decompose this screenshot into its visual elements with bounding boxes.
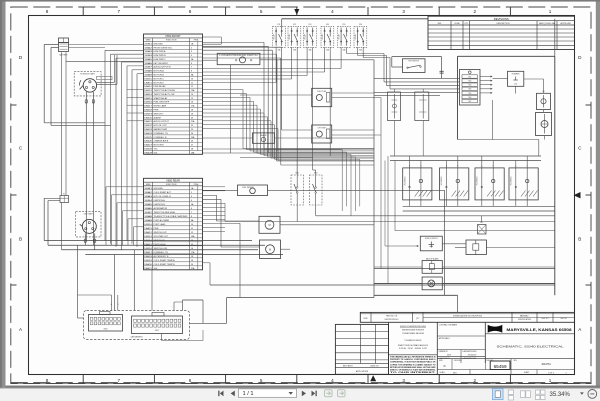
title block scale row <box>437 369 574 371</box>
svg-text:ALARM: ALARM <box>260 134 266 137</box>
toolbar zoom dropdown caret <box>580 392 584 394</box>
ignition switch S2 dashed enclosure <box>76 212 101 237</box>
svg-text:MOTION A: MOTION A <box>154 70 165 73</box>
terminal strip feed bus wires <box>374 77 460 79</box>
solenoid valve V1 <box>403 168 432 200</box>
svg-text:16B1: 16B1 <box>144 188 152 190</box>
svg-text:8: 8 <box>46 378 49 383</box>
svg-text:18A9: 18A9 <box>144 74 152 77</box>
svg-text:MARYSVILLE, KANSAS 66508: MARYSVILLE, KANSAS 66508 <box>507 327 573 332</box>
svg-text:16B16: 16B16 <box>144 102 152 104</box>
svg-text:X12: X12 <box>480 222 483 224</box>
svg-text:ZONE: ZONE <box>454 23 460 25</box>
relay module A2 <box>253 133 275 143</box>
svg-text:COLD START ACT: COLD START ACT <box>154 191 172 194</box>
svg-text:16B19: 16B19 <box>144 260 152 262</box>
riser wires from table X650 REAR to motors <box>203 194 217 196</box>
table X650 FRONT right-side stub wires upper <box>203 41 265 43</box>
svg-text:PIN A: PIN A <box>194 39 199 42</box>
solenoid module L2 <box>536 113 552 136</box>
svg-text:16B1: 16B1 <box>144 43 152 45</box>
wiper motor M2 <box>260 240 281 259</box>
svg-text:11: 11 <box>191 228 193 230</box>
svg-text:6: 6 <box>189 378 192 383</box>
toolbar continuous layout button <box>508 390 513 400</box>
wire from connector going up right <box>182 300 184 311</box>
svg-text:FRACTIONS DECIMALS ANGLES: FRACTIONS DECIMALS ANGLES <box>398 344 429 347</box>
svg-text:B: B <box>578 237 581 242</box>
relay K6 dashed box <box>354 26 367 47</box>
relay K3 dashed box <box>304 26 317 47</box>
svg-text:IGNITION A: IGNITION A <box>154 199 166 202</box>
svg-text:18: 18 <box>191 256 193 258</box>
svg-text:3: 3 <box>191 196 192 198</box>
relay drops routed right to feed bus <box>346 47 348 53</box>
svg-text:18A8: 18A8 <box>144 215 152 218</box>
connector J1 body <box>89 315 123 332</box>
svg-text:19: 19 <box>191 113 193 115</box>
center horizontal bus wires <box>203 148 374 150</box>
svg-text:THROTTLE ACT HIGH: THROTTLE ACT HIGH <box>154 89 176 92</box>
S1 lead connectors <box>85 92 87 108</box>
svg-text:HYD OIL OUT: HYD OIL OUT <box>154 125 168 127</box>
title block left application table <box>335 324 388 374</box>
svg-text:WIRE: WIRE <box>146 40 151 42</box>
relay K2 dashed box <box>288 26 301 47</box>
solenoid valve V2 <box>440 168 469 200</box>
fuel level sender G1 <box>238 185 268 196</box>
svg-text:6: 6 <box>191 208 192 210</box>
svg-text:APPROVED: APPROVED <box>561 22 572 25</box>
relay K1 dashed box <box>273 26 286 47</box>
svg-text:7/16/2007: 7/16/2007 <box>468 355 478 357</box>
fuel pump P1 wires <box>240 94 312 96</box>
flasher wires <box>493 78 508 80</box>
svg-text:TOLERANCES ARE: MACHINED: TOLERANCES ARE: MACHINED <box>402 332 425 335</box>
svg-text:CHECKED BY: CHECKED BY <box>439 358 451 360</box>
svg-text:X651: X651 <box>155 330 159 332</box>
sensor module B <box>415 92 429 121</box>
svg-text:SCHEMATIC, SS/40 ELECTRICAL: SCHEMATIC, SS/40 ELECTRICAL <box>497 344 564 348</box>
svg-text:18: 18 <box>191 110 193 112</box>
svg-text:X650 REAR: X650 REAR <box>166 178 180 182</box>
toolbar prev-page button <box>231 391 235 397</box>
fuel pump module P1 <box>312 88 332 106</box>
svg-text:22: 22 <box>191 125 193 127</box>
fuel sender wires <box>203 189 238 191</box>
cab harness connector assembly dashed enclosure <box>84 311 190 340</box>
ignition switch S1 rotary symbol <box>83 79 96 92</box>
svg-text:16B22: 16B22 <box>144 125 152 127</box>
left riser bundle to table X650 FRONT <box>105 49 144 51</box>
svg-text:F51: F51 <box>277 24 280 26</box>
svg-text:18A18: 18A18 <box>144 109 152 112</box>
svg-text:ALTERNATOR: ALTERNATOR <box>154 207 168 210</box>
svg-text:16: 16 <box>191 102 193 104</box>
svg-text:DOWNHILL 7%: DOWNHILL 7% <box>154 133 169 135</box>
svg-text:CAB HARNESS: CAB HARNESS <box>130 335 143 338</box>
svg-text:16B25: 16B25 <box>144 137 152 139</box>
svg-text:IDENTIFYING NO.: IDENTIFYING NO. <box>385 319 400 321</box>
svg-text:2: 2 <box>191 192 192 194</box>
svg-text:START RELAY: START RELAY <box>154 97 168 100</box>
svg-text:THROTTLE ACT LOW: THROTTLE ACT LOW <box>154 93 175 96</box>
relay module K8 <box>537 93 551 109</box>
svg-text:F56: F56 <box>359 24 362 26</box>
svg-text:MOTION E: MOTION E <box>154 145 165 147</box>
svg-text:MOTION C: MOTION C <box>154 78 165 80</box>
connector J1 pin grid <box>90 317 93 320</box>
connector right lead <box>173 302 175 311</box>
svg-text:SIZE: SIZE <box>439 360 443 362</box>
svg-text:FUEL SHUTOFF: FUEL SHUTOFF <box>154 102 170 104</box>
svg-text:18A11: 18A11 <box>144 81 152 84</box>
svg-text:4: 4 <box>331 9 334 14</box>
svg-text:F54: F54 <box>326 24 329 26</box>
svg-text:THIS DRAWING AND ALL INFORMATI: THIS DRAWING AND ALL INFORMATION THEREON… <box>390 356 436 359</box>
svg-text:18A27: 18A27 <box>144 144 152 147</box>
svg-text:APPROVALS: APPROVALS <box>439 337 451 340</box>
svg-text:8: 8 <box>191 71 192 73</box>
svg-text:4: 4 <box>331 378 334 383</box>
svg-text:1/16 .XX .030: 1/16 .XX .030 1/2 <box>399 348 427 350</box>
svg-text:18A2: 18A2 <box>144 191 152 194</box>
svg-text:DATE APPROVED: DATE APPROVED <box>463 350 478 353</box>
horizontal ground bus wires <box>44 240 252 242</box>
svg-text:DIMENSIONS ARE IN INCHES: DIMENSIONS ARE IN INCHES <box>402 329 425 332</box>
toolbar previous-view button (disabled) <box>325 390 333 397</box>
svg-text:18A6: 18A6 <box>144 207 152 210</box>
svg-text:3: 3 <box>402 378 405 383</box>
svg-text:8: 8 <box>46 9 49 14</box>
toolbar single-page layout button (active) <box>493 389 504 400</box>
svg-text:11: 11 <box>191 82 193 84</box>
svg-text:18A18: 18A18 <box>144 255 152 258</box>
svg-text:LIFT PUMP: LIFT PUMP <box>318 128 326 130</box>
svg-text:DLH: DLH <box>447 355 452 357</box>
M1 wires <box>217 220 260 222</box>
wire loop above horn relay <box>203 36 222 38</box>
svg-text:B: B <box>527 165 528 167</box>
svg-text:SOLENOID: SOLENOID <box>511 176 513 186</box>
flasher F1 box <box>508 71 524 86</box>
svg-text:BATTERY: BATTERY <box>59 54 68 57</box>
svg-text:SPECIFICATION: SPECIFICATION <box>518 318 532 321</box>
svg-text:1 OF 1: 1 OF 1 <box>548 372 554 374</box>
title block tolerance note box <box>388 322 390 375</box>
svg-text:K7: K7 <box>63 193 65 195</box>
S1 output pair wires with label <box>97 81 115 83</box>
left vertical feed wire B <box>50 48 52 126</box>
toolbar first-page button <box>218 391 223 397</box>
solenoid valve V4 <box>509 168 538 200</box>
svg-text:15: 15 <box>191 98 193 100</box>
svg-text:UNIT WT: UNIT WT <box>542 318 549 320</box>
svg-text:PWR: PWR <box>154 228 159 230</box>
svg-text:5: 5 <box>260 9 263 14</box>
svg-text:16B10: 16B10 <box>144 224 152 226</box>
zone ticks left/right <box>11 104 17 106</box>
svg-text:SOLENOID: SOLENOID <box>441 176 443 186</box>
svg-text:20: 20 <box>191 264 193 266</box>
solenoid valve V3 <box>475 168 504 200</box>
svg-text:SHEET: SHEET <box>524 372 529 374</box>
battery feed wire to table <box>66 60 144 62</box>
svg-text:FUNCTION: FUNCTION <box>166 40 177 42</box>
svg-text:18A20: 18A20 <box>144 116 152 119</box>
svg-text:28: 28 <box>191 148 193 150</box>
svg-text:DRAWN BY: DRAWN BY <box>439 350 449 353</box>
table X650 REAR right stubs <box>203 186 226 188</box>
toolbar next-view button (disabled) <box>338 390 346 397</box>
svg-text:26: 26 <box>191 141 193 143</box>
svg-text:KEY SWITCH: KEY SWITCH <box>408 61 419 63</box>
svg-text:M: M <box>269 248 271 251</box>
svg-text:1: 1 <box>549 378 552 383</box>
connector top lead labels <box>111 295 113 311</box>
svg-text:7: 7 <box>191 212 192 214</box>
wires joining K8 and L2 <box>543 87 545 94</box>
svg-text:B: B <box>420 165 421 167</box>
S2 lead connectors <box>84 233 86 245</box>
svg-text:X650 FRONT: X650 FRONT <box>165 34 181 38</box>
beacon module <box>422 261 442 274</box>
svg-text:PROPERTY OF LANDOLL CORPORATIO: PROPERTY OF LANDOLL CORPORATION, AND IS <box>390 358 436 361</box>
svg-text:DOWNHILL 7%: DOWNHILL 7% <box>154 252 169 254</box>
svg-text:18A11: 18A11 <box>144 227 152 230</box>
feed wire below battery line <box>203 46 282 48</box>
right center mark <box>574 192 581 198</box>
rocker switch SW1 dashed box <box>291 175 304 205</box>
svg-text:18A17: 18A17 <box>144 251 152 254</box>
svg-text:FUNCTION: FUNCTION <box>166 184 177 186</box>
sensor module A <box>388 92 401 121</box>
viewer toolbar background <box>0 388 600 401</box>
svg-text:18A14: 18A14 <box>144 93 153 96</box>
svg-text:NEXT ASSY: NEXT ASSY <box>343 365 354 368</box>
svg-text:F55: F55 <box>342 24 345 26</box>
wiper motor M1 <box>259 216 280 233</box>
svg-text:65459: 65459 <box>494 364 507 369</box>
svg-text:THROTTLE REF HIGH: THROTTLE REF HIGH <box>154 212 176 214</box>
svg-text:F53: F53 <box>308 24 311 26</box>
svg-text:16B13: 16B13 <box>144 236 152 238</box>
svg-text:PWR: PWR <box>154 110 159 112</box>
svg-text:TB5: TB5 <box>468 93 471 95</box>
svg-text:REVISIONS: REVISIONS <box>494 17 509 21</box>
svg-text:B: B <box>457 165 458 167</box>
bottom trim emphasis dashes <box>11 382 591 384</box>
svg-text:DOWNHILL B: DOWNHILL B <box>154 137 167 139</box>
diode module <box>466 240 486 255</box>
svg-text:18A21: 18A21 <box>144 267 152 270</box>
key switch feed loop wire <box>392 66 403 68</box>
svg-text:18A29: 18A29 <box>144 151 152 154</box>
svg-text:TO OUR INTEREST.: TO OUR INTEREST. <box>390 372 437 374</box>
work lamp <box>422 277 442 290</box>
fuel pump P2 wires <box>282 129 312 131</box>
small relay K7 left <box>60 196 69 203</box>
svg-text:SOLENOID: SOLENOID <box>477 176 479 186</box>
svg-text:DESCRIPTION: DESCRIPTION <box>497 23 511 25</box>
svg-text:3: 3 <box>191 51 192 53</box>
svg-text:16B13: 16B13 <box>144 90 152 92</box>
svg-text:GROUND: GROUND <box>154 188 164 190</box>
beacon wires <box>374 266 422 268</box>
svg-text:SWITCH OUT: SWITCH OUT <box>154 232 168 234</box>
lower enclosure bus wires <box>374 268 555 270</box>
horn control module <box>420 236 442 251</box>
connector J2 body <box>132 316 183 334</box>
top power bus wire <box>282 18 428 20</box>
rocker switch SW2 dashed box <box>310 175 323 205</box>
svg-text:20: 20 <box>191 117 193 119</box>
connector bottom ground lead <box>161 334 163 341</box>
svg-text:18A9: 18A9 <box>144 219 152 222</box>
svg-text:D: D <box>444 364 446 368</box>
svg-text:ALARM: ALARM <box>154 116 161 119</box>
svg-text:16B28: 16B28 <box>144 148 152 150</box>
horn control wires <box>385 245 417 247</box>
svg-text:TB7: TB7 <box>468 101 471 103</box>
work lamp wires <box>374 282 422 284</box>
svg-text:SOLENOID: SOLENOID <box>404 176 406 186</box>
svg-text:ECM PWR A: ECM PWR A <box>154 50 167 53</box>
svg-text:CONFIDENTIAL. IT MUST NOT BE M: CONFIDENTIAL. IT MUST NOT BE MADE PUBLIC… <box>390 361 436 364</box>
svg-text:18A24: 18A24 <box>144 132 153 135</box>
svg-text:PORT LEAD: PORT LEAD <box>154 223 166 226</box>
svg-text:12: 12 <box>191 86 193 88</box>
title block signature fields column <box>437 335 485 337</box>
svg-text:1044731: 1044731 <box>541 363 551 366</box>
toolbar page number box <box>239 389 297 398</box>
svg-text:SYS PWR OUT: SYS PWR OUT <box>154 236 169 238</box>
logo cell with company name <box>484 322 486 363</box>
svg-text:TB2: TB2 <box>468 81 471 83</box>
relay K4 dashed box <box>321 26 334 47</box>
svg-text:M: M <box>268 224 270 227</box>
svg-text:TB4: TB4 <box>468 89 471 91</box>
svg-text:B: B <box>118 304 119 306</box>
battery / key switch component B1 <box>59 38 69 43</box>
svg-text:TB3: TB3 <box>468 85 471 87</box>
horn relay wires <box>203 59 218 61</box>
terminal strip TS1 <box>460 70 481 106</box>
svg-text:F52: F52 <box>293 24 296 26</box>
svg-text:DIRECTLY OR INDIRECTLY IN ANY: DIRECTLY OR INDIRECTLY IN ANY WAY DETRIM… <box>390 368 436 371</box>
svg-text:TB1: TB1 <box>468 76 471 78</box>
svg-text:MOTION B: MOTION B <box>154 75 165 77</box>
svg-text:1 / 1: 1 / 1 <box>243 391 254 397</box>
svg-text:GROUND: GROUND <box>154 43 164 45</box>
svg-text:18A3: 18A3 <box>144 195 152 198</box>
svg-text:MATERIAL /: MATERIAL / <box>520 315 530 318</box>
svg-text:6: 6 <box>191 63 192 65</box>
svg-text:WORK LAMP: WORK LAMP <box>154 105 167 108</box>
svg-text:TB6: TB6 <box>468 97 471 99</box>
svg-text:18A23: 18A23 <box>144 128 152 131</box>
ignition switch S1 dashed enclosure <box>74 72 101 96</box>
sensor feed wires <box>393 89 395 92</box>
svg-text:2: 2 <box>191 47 192 49</box>
connector table X650 REAR <box>144 178 203 269</box>
revisions table <box>428 16 575 49</box>
svg-text:7: 7 <box>118 378 121 383</box>
connector bowtie symbol mid-right <box>478 225 487 235</box>
svg-text:KEY START: KEY START <box>84 213 93 216</box>
svg-text:KEY SW INPUT: KEY SW INPUT <box>154 63 170 65</box>
terminal strip right arrow stubs <box>480 76 491 78</box>
svg-text:HYD OIL LEVEL B: HYD OIL LEVEL B <box>154 196 172 198</box>
svg-text:FRONT DRIVE SOL: FRONT DRIVE SOL <box>154 47 174 49</box>
svg-text:10: 10 <box>191 78 193 80</box>
ignition switch S2 rotary symbol <box>82 219 96 233</box>
battery to table wires <box>69 44 144 46</box>
svg-text:B: B <box>19 237 22 242</box>
horn relay left pin drop <box>230 65 232 153</box>
bus drops to bottom connector <box>77 245 79 318</box>
wire from table X650 REAR down to connector <box>151 270 153 311</box>
svg-text:SWITCH 7: SWITCH 7 <box>154 113 165 115</box>
svg-text:2: 2 <box>474 9 477 14</box>
M2 wires <box>221 246 260 248</box>
toolbar two-page layout button <box>521 391 531 398</box>
svg-text:7: 7 <box>191 67 192 69</box>
svg-text:18A5: 18A5 <box>144 203 152 206</box>
svg-text:WIRE: WIRE <box>146 184 151 186</box>
svg-text:APPLICATION: APPLICATION <box>356 370 369 373</box>
svg-text:COLD START TEMP A: COLD START TEMP A <box>154 259 176 262</box>
svg-text:23: 23 <box>191 129 193 131</box>
svg-text:18A21: 18A21 <box>144 120 152 123</box>
svg-text:18A3: 18A3 <box>144 50 152 53</box>
svg-text:18A15: 18A15 <box>144 97 152 100</box>
svg-text:FUEL PUMP: FUEL PUMP <box>317 91 326 93</box>
svg-text:CHARGE AIR B: CHARGE AIR B <box>154 140 169 143</box>
svg-text:PIN A: PIN A <box>194 183 199 186</box>
svg-text:12: 12 <box>191 232 193 234</box>
svg-text:19: 19 <box>191 260 193 262</box>
svg-text:CONTRACT NUMBER: CONTRACT NUMBER <box>439 323 458 326</box>
svg-text:7: 7 <box>118 9 121 14</box>
svg-text:AUX A OUTPUT B: AUX A OUTPUT B <box>154 66 172 69</box>
svg-text:IGNITION B: IGNITION B <box>154 204 166 206</box>
title block parts-list header strip <box>360 312 574 322</box>
svg-text:COPIED. THIS DRAWING IS LOANED: COPIED. THIS DRAWING IS LOANED SUBJECT T… <box>390 363 436 366</box>
svg-text:1: 1 <box>549 9 552 14</box>
svg-text:DATE (YR-MO-DA): DATE (YR-MO-DA) <box>539 22 556 25</box>
svg-text:EXTERIOR START: EXTERIOR START <box>80 73 94 76</box>
svg-text:18A8: 18A8 <box>144 70 152 73</box>
svg-text:COLD START TEMP B: COLD START TEMP B <box>154 263 176 266</box>
connector J2 pin grid <box>134 319 137 322</box>
relay left-pin staircase wires into table X650 FRONT <box>275 47 277 82</box>
battery riser to relay K7 <box>61 52 63 195</box>
S1 drop wires to lower bus <box>85 108 87 241</box>
svg-text:B: B <box>493 165 494 167</box>
svg-text:35.34%: 35.34% <box>550 392 571 398</box>
svg-text:X650: X650 <box>104 329 108 331</box>
zone ticks top/bottom <box>82 7 84 15</box>
svg-text:18A5: 18A5 <box>144 58 152 61</box>
svg-text:18A26: 18A26 <box>144 140 152 143</box>
svg-text:FLASHER: FLASHER <box>512 72 521 75</box>
svg-text:HORN CONTROL: HORN CONTROL <box>425 238 438 240</box>
svg-text:5: 5 <box>260 378 263 383</box>
key switch box S3 <box>403 59 426 73</box>
svg-text:27: 27 <box>191 145 193 147</box>
top center mark <box>294 9 299 15</box>
